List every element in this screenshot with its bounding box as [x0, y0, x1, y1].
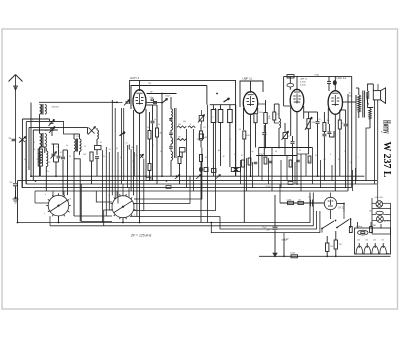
svg-text:575: 575 — [277, 114, 280, 116]
socket S1 — [48, 195, 69, 216]
svg-text:0.5μF: 0.5μF — [259, 154, 265, 156]
svg-text:07: 07 — [342, 123, 344, 125]
wire — [258, 103, 266, 105]
trimmer arrow in band — [175, 175, 180, 180]
wire — [374, 100, 376, 184]
wire — [147, 104, 157, 106]
resistor R14 zig — [188, 126, 195, 128]
wire — [114, 108, 116, 199]
svg-text:1n: 1n — [32, 120, 34, 122]
coil L2 — [40, 133, 42, 147]
resistor Rx4 — [289, 160, 292, 167]
svg-text:01: 01 — [288, 136, 290, 138]
capacitor C14 — [169, 132, 173, 134]
resistor R20 — [254, 114, 257, 123]
wire — [321, 229, 323, 233]
capacitor C-ant 250pF — [13, 183, 18, 185]
IF1 coil 2 — [171, 121, 173, 130]
output transformer primary — [358, 95, 361, 112]
wire — [52, 143, 59, 145]
wire antenna to bottom bus — [17, 181, 19, 223]
svg-text:100p: 100p — [150, 97, 154, 99]
oscillator coil L4 — [74, 139, 76, 151]
capacitor C7 — [61, 156, 65, 158]
wire — [283, 76, 285, 106]
resistor R45 — [370, 227, 373, 233]
wire — [64, 122, 75, 134]
capacitor C41 2uF — [273, 226, 278, 228]
wire bottom mains — [259, 255, 391, 257]
IF2 coil B — [218, 110, 223, 123]
wire — [131, 86, 207, 110]
svg-text:750: 750 — [339, 244, 342, 246]
wire — [143, 159, 145, 211]
resistor Rx2 — [248, 158, 251, 165]
svg-text:6: 6 — [330, 154, 331, 156]
svg-text:DM2: DM2 — [315, 75, 320, 77]
svg-text:UBF 11: UBF 11 — [243, 76, 253, 80]
wire — [53, 119, 55, 121]
svg-text:5n: 5n — [154, 119, 156, 121]
svg-text:50k: 50k — [178, 124, 181, 126]
resistor R23 — [243, 131, 246, 139]
wire — [49, 216, 51, 226]
wire — [39, 147, 41, 176]
tube T1 ACH1 — [133, 90, 146, 114]
tube T3 internals — [296, 94, 298, 104]
wire tube1 pins — [133, 110, 135, 195]
svg-text:05: 05 — [136, 155, 138, 157]
svg-text:100: 100 — [298, 199, 301, 201]
wire tube1 anode right — [147, 93, 177, 95]
svg-text:ZF = 125 kHz: ZF = 125 kHz — [130, 234, 152, 238]
antenna coil L1 — [40, 105, 42, 115]
resistor in band — [146, 178, 151, 181]
wire — [105, 147, 107, 216]
capacitor C27 — [316, 121, 320, 123]
wire — [186, 129, 188, 188]
coil L3 — [46, 151, 48, 167]
wire bottom bus 3 — [220, 211, 317, 229]
trimmer capacitor T1 — [50, 121, 54, 123]
wire — [265, 100, 267, 104]
resistor R16 oval — [178, 157, 181, 164]
trimmer capacitor T2 — [50, 128, 54, 130]
wire — [377, 184, 379, 198]
lamp ladder right rail — [390, 203, 392, 230]
switch S11 — [336, 227, 338, 229]
socket S2 rotor — [114, 201, 132, 213]
wire — [207, 105, 209, 223]
svg-text:01: 01 — [315, 155, 317, 157]
rectifier U1 UY11 — [324, 197, 336, 209]
svg-text:6k: 6k — [252, 151, 254, 153]
box C23 — [283, 133, 288, 139]
svg-text:W: W — [109, 149, 111, 151]
resistor R3 03M — [38, 149, 42, 166]
wire — [35, 202, 48, 204]
wire — [73, 134, 75, 139]
wire — [289, 76, 291, 83]
svg-text:UBF 11: UBF 11 — [300, 79, 308, 81]
speaker coil zig — [366, 91, 368, 99]
wire — [87, 127, 89, 133]
svg-text:125: 125 — [373, 240, 376, 242]
oval part — [287, 83, 294, 87]
svg-text:6,3mA: 6,3mA — [300, 81, 306, 84]
svg-text:505: 505 — [45, 130, 48, 132]
svg-text:04: 04 — [205, 157, 207, 159]
svg-text:05: 05 — [338, 159, 340, 161]
wire — [297, 153, 309, 155]
svg-text:30/1500: 30/1500 — [52, 107, 60, 109]
wave trap arrow — [19, 137, 26, 143]
capacitor C31 — [344, 123, 348, 125]
svg-text:W 237 L: W 237 L — [381, 142, 393, 178]
svg-text:03: 03 — [324, 159, 326, 161]
output transformer secondary — [366, 96, 368, 104]
resistor R8 513 — [90, 152, 93, 161]
resistor in band — [288, 182, 293, 185]
ground arrow antenna — [15, 191, 17, 199]
wire — [74, 215, 112, 217]
capacitor C13 — [169, 118, 173, 120]
resistor R12b oval — [148, 164, 151, 171]
socket S2 — [112, 196, 134, 218]
IF1 core — [174, 108, 176, 158]
svg-text:1k: 1k — [160, 151, 162, 153]
svg-text:02: 02 — [241, 155, 243, 157]
wire — [309, 111, 318, 113]
wire — [352, 170, 354, 191]
svg-text:02: 02 — [24, 159, 26, 161]
resistor Rx3 — [264, 157, 267, 164]
resistor Rx5 — [308, 156, 311, 163]
wire tube1 grid left — [125, 101, 128, 103]
resistor R22 — [273, 112, 276, 120]
svg-text:220: 220 — [357, 240, 360, 242]
svg-text:30: 30 — [69, 156, 71, 158]
wire — [347, 94, 349, 191]
wire — [111, 100, 113, 195]
svg-text:a: a — [45, 194, 46, 196]
wire — [136, 145, 138, 217]
ladder rungs — [372, 202, 376, 204]
bus wire 5 — [35, 190, 348, 192]
resistor R17v — [199, 131, 202, 140]
capacitor block top — [287, 75, 294, 79]
svg-text:1: 1 — [344, 151, 345, 153]
svg-text:30: 30 — [60, 152, 62, 154]
wire — [304, 111, 309, 113]
svg-text:05M: 05M — [246, 135, 250, 137]
box bottom2 — [212, 169, 217, 173]
wire — [28, 127, 30, 170]
svg-text:W: W — [49, 162, 51, 164]
capacitor C42 60uF — [283, 238, 285, 256]
IF1 coil 1 — [171, 109, 173, 118]
resistor in band — [166, 186, 171, 189]
wire tube3 top — [296, 76, 298, 89]
svg-text:30p: 30p — [197, 139, 200, 141]
wire tube3 pins — [290, 106, 292, 136]
svg-text:110: 110 — [381, 240, 384, 242]
svg-text:01: 01 — [319, 119, 321, 121]
wire — [127, 145, 129, 188]
mains transformer windings — [356, 246, 390, 254]
svg-text:03: 03 — [275, 151, 277, 153]
wire nested h2 — [134, 148, 202, 200]
svg-text:30: 30 — [46, 119, 48, 121]
wire — [104, 210, 112, 226]
resistor R42 750 — [334, 240, 337, 249]
bracket part — [128, 145, 131, 149]
wire — [258, 148, 260, 177]
svg-text:513: 513 — [83, 154, 86, 156]
wire — [25, 140, 27, 184]
resistor R26 240k — [307, 119, 310, 129]
tube T2 UBF11 — [243, 92, 257, 115]
tube T3 UBF11 — [290, 89, 304, 111]
wire top right — [284, 75, 352, 77]
svg-text:04: 04 — [299, 150, 301, 152]
socket S1 pins — [69, 205, 71, 207]
wire — [123, 108, 125, 181]
IF1 coil 4 — [171, 151, 173, 160]
wire — [102, 150, 104, 223]
wire tube2 top — [250, 81, 252, 92]
wire — [294, 162, 296, 184]
wire — [252, 162, 254, 188]
wire tube4 top — [334, 76, 336, 90]
socket S1 rotor — [50, 200, 68, 212]
capacitor C28 — [322, 133, 326, 135]
speaker SP1 — [373, 91, 380, 100]
wire — [279, 184, 281, 203]
wire — [280, 160, 282, 188]
svg-text:05: 05 — [152, 145, 154, 147]
capacitor C29 — [327, 131, 331, 133]
tube T4 internals — [334, 95, 336, 106]
wire — [305, 154, 307, 176]
wire — [340, 109, 346, 111]
wire — [268, 158, 270, 184]
resistor Rx1 — [242, 160, 245, 167]
capacitor C40 — [310, 200, 312, 207]
wire — [261, 156, 263, 181]
wire — [355, 168, 357, 184]
resistor R17w — [200, 155, 203, 162]
wire — [130, 149, 132, 191]
padder arrow — [88, 127, 96, 135]
black arrow osc — [120, 132, 126, 136]
svg-text:8: 8 — [230, 139, 231, 141]
wire nested h1 — [134, 176, 190, 203]
svg-text:05: 05 — [239, 129, 241, 131]
wire — [30, 103, 32, 177]
wire top box — [130, 80, 236, 176]
svg-text:04: 04 — [57, 147, 59, 149]
capacitor C3 — [12, 138, 16, 140]
svg-text:5k: 5k — [66, 145, 68, 147]
svg-text:150: 150 — [365, 240, 368, 242]
capacitor C12 — [146, 101, 162, 103]
svg-text:20: 20 — [84, 146, 86, 148]
wire grid line — [39, 101, 117, 103]
wire bottom bus 2 — [50, 193, 313, 226]
wire — [210, 104, 236, 106]
transformer taps — [358, 243, 360, 248]
bus wire 4 — [22, 187, 352, 189]
svg-text:30: 30 — [223, 156, 225, 158]
svg-text:50k: 50k — [327, 120, 330, 122]
svg-text:6: 6 — [28, 167, 29, 169]
wire — [133, 152, 135, 176]
svg-text:12,6V: 12,6V — [266, 186, 272, 188]
trimmer arrow in band — [196, 175, 201, 180]
wire — [58, 216, 60, 223]
svg-text:g: g — [70, 198, 71, 200]
bus wire 1 — [30, 175, 364, 177]
svg-text:0,03A: 0,03A — [287, 198, 292, 201]
svg-text:01: 01 — [263, 157, 265, 159]
junction arrow — [273, 253, 277, 256]
svg-text:UCL 11: UCL 11 — [337, 76, 347, 80]
fuse F3 0.2A — [358, 230, 368, 235]
rounded box — [95, 146, 102, 150]
wire — [81, 221, 112, 223]
small part — [140, 154, 144, 159]
wire tube2 pins — [243, 108, 245, 130]
resistor R46 oval — [376, 211, 383, 214]
wire — [63, 149, 68, 151]
lamp ladder left rail — [371, 198, 373, 231]
field coil — [369, 109, 372, 119]
wire — [271, 148, 273, 192]
svg-text:50: 50 — [103, 156, 105, 158]
svg-text:03M: 03M — [37, 159, 41, 161]
wire nested h-lines — [22, 119, 87, 130]
wire — [235, 105, 237, 177]
svg-text:50: 50 — [116, 148, 118, 150]
svg-text:100k: 100k — [259, 112, 263, 114]
tube T2 internals — [250, 96, 252, 106]
box AB — [199, 134, 203, 139]
wire bottom bus 1 — [18, 193, 311, 223]
wire — [330, 210, 332, 219]
junction dots — [139, 175, 141, 177]
fuse F1 — [288, 201, 294, 204]
svg-text:313: 313 — [76, 136, 79, 138]
capacitor C6 — [57, 155, 61, 157]
resistor R44 — [349, 227, 352, 233]
wire — [122, 218, 124, 223]
wire — [240, 160, 242, 184]
resistor R21 — [264, 113, 267, 124]
wire — [80, 184, 82, 222]
svg-text:0,2Amp: 0,2Amp — [356, 225, 362, 228]
svg-text:6,3V 0,1A: 6,3V 0,1A — [375, 196, 384, 199]
wire grid to tube1 — [111, 100, 113, 103]
resistor R40 — [298, 201, 303, 204]
capacitor Cx3 — [296, 159, 300, 161]
svg-text:1n: 1n — [47, 171, 49, 173]
trimmer C5 — [52, 153, 56, 155]
wire top — [240, 81, 263, 107]
fuse F2 bottom — [291, 255, 298, 258]
wire nested h3 — [133, 108, 216, 211]
wire — [161, 94, 163, 177]
svg-text:ACH 1: ACH 1 — [130, 76, 139, 80]
wire — [117, 152, 119, 204]
tube T4 UCL11 — [328, 91, 342, 115]
wire — [62, 160, 64, 195]
svg-text:45: 45 — [349, 93, 351, 95]
black arrow det — [224, 98, 230, 102]
wire — [73, 151, 75, 158]
capacitor C30 cluster — [327, 81, 331, 83]
bus wire 2 — [18, 180, 378, 182]
wire — [246, 158, 248, 191]
wire — [372, 84, 374, 91]
wire — [79, 163, 81, 222]
wire — [52, 191, 54, 197]
capacitor Cx1 — [254, 161, 258, 163]
pilot lamp LP1 — [376, 201, 383, 208]
bus wire 3 — [26, 183, 377, 185]
wire tube1 top — [139, 80, 141, 90]
svg-text:04: 04 — [120, 157, 122, 159]
capacitor Cx2 — [269, 160, 273, 162]
svg-text:Horny: Horny — [381, 120, 392, 134]
svg-text:5: 5 — [289, 157, 290, 159]
wire — [25, 122, 27, 184]
svg-text:01: 01 — [100, 142, 102, 144]
wire — [312, 148, 314, 185]
IF2 coil A — [211, 110, 216, 123]
svg-text:115: 115 — [330, 246, 333, 248]
resistor R15 zig — [177, 138, 187, 140]
output transformer core — [362, 91, 364, 118]
wire — [300, 154, 302, 191]
svg-text:0,3mA: 0,3mA — [300, 84, 306, 87]
wire bottom bus 4 — [211, 211, 320, 233]
svg-text:2M: 2M — [9, 138, 12, 140]
svg-text:k: k — [44, 213, 45, 215]
wire — [39, 114, 41, 133]
resistor R41 115 — [326, 243, 329, 251]
rectifier internals — [330, 200, 332, 206]
wire — [320, 160, 322, 188]
coil L8 — [279, 119, 281, 129]
capacitor C22 — [262, 132, 266, 134]
svg-text:h: h — [69, 212, 70, 214]
svg-text:7: 7 — [358, 157, 359, 159]
IF1 coil 3 — [171, 138, 173, 144]
wire mid2 — [256, 155, 297, 157]
svg-text:2: 2 — [212, 117, 213, 119]
IF2 coil C — [228, 110, 233, 123]
resistor R27 50k — [323, 123, 326, 132]
socket S2 pins — [134, 209, 136, 212]
resistor R13 zig — [177, 126, 186, 128]
wire — [286, 156, 288, 181]
boxes x bottom — [231, 168, 235, 172]
svg-text:100pF: 100pF — [165, 96, 171, 98]
svg-text:1: 1 — [108, 195, 109, 197]
wire — [243, 188, 245, 223]
svg-text:3: 3 — [34, 142, 35, 144]
